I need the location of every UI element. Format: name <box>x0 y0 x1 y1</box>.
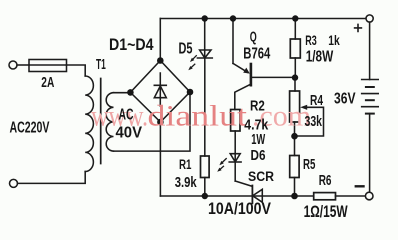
fuse F 2A <box>29 60 67 72</box>
LED D5 emission arrows <box>191 56 197 68</box>
svg-text:1/8W: 1/8W <box>306 48 334 65</box>
svg-text:SCR: SCR <box>248 169 274 184</box>
wire emitter column <box>232 19 234 64</box>
SCR thyristor <box>251 186 253 204</box>
plus sign <box>355 24 362 31</box>
transistor Q emitter with arrow <box>233 63 248 72</box>
wire R4 bottom to node <box>294 122 296 136</box>
node bridge right <box>187 89 194 96</box>
terminal AC top circle <box>9 61 17 69</box>
svg-text:33k: 33k <box>305 114 323 130</box>
svg-text:R3: R3 <box>305 32 317 48</box>
wire secondary bottom to bridge right <box>114 92 191 151</box>
transformer core <box>100 79 102 164</box>
wire fuse to transformer primary <box>67 65 86 76</box>
svg-text:T1: T1 <box>96 56 106 73</box>
resistor R2 <box>231 110 240 132</box>
svg-text:AC220V: AC220V <box>10 120 50 137</box>
potentiometer R4 wiper <box>300 105 307 110</box>
bridge rectifier D1-D4 diamond <box>130 61 190 123</box>
terminal - circle <box>365 192 373 200</box>
resistor R5 <box>294 136 296 155</box>
transistor Q collector <box>235 85 250 110</box>
svg-text:R1: R1 <box>179 157 192 172</box>
LED D6 <box>230 154 240 162</box>
svg-text:B764: B764 <box>243 46 270 63</box>
transformer T1 primary winding <box>85 76 93 172</box>
svg-text:D6: D6 <box>251 148 266 164</box>
node bridge left <box>127 89 134 96</box>
terminal AC bottom circle <box>10 179 18 187</box>
svg-text:Q: Q <box>250 30 257 46</box>
LED D5 <box>204 19 206 59</box>
svg-text:D5: D5 <box>179 41 193 58</box>
svg-text:1k: 1k <box>328 32 340 48</box>
resistor R6 <box>314 193 336 200</box>
node top rail D5 <box>202 15 208 21</box>
node bridge bottom <box>157 119 164 126</box>
terminal + circle <box>366 15 373 22</box>
wire bottom rail right <box>336 195 366 197</box>
LED D6 emission arrows <box>220 159 227 170</box>
wire terminal to fuse <box>17 64 29 66</box>
svg-text:36V: 36V <box>334 90 356 107</box>
svg-text:R4: R4 <box>310 92 323 109</box>
resistor R3 <box>294 19 296 40</box>
svg-text:AC: AC <box>119 107 134 124</box>
svg-text:R5: R5 <box>303 156 315 173</box>
minus sign <box>356 185 364 187</box>
svg-text:10A/100V: 10A/100V <box>208 200 271 218</box>
svg-text:D1~D4: D1~D4 <box>109 36 154 54</box>
svg-text:dianlut: dianlut <box>148 99 248 132</box>
transformer secondary winding <box>106 93 113 151</box>
wire bridge top drop <box>159 19 161 61</box>
wire R2 to D6 <box>234 131 236 162</box>
svg-text:R2: R2 <box>250 98 265 115</box>
potentiometer R4 <box>290 91 300 122</box>
node R4 wiper R5 <box>291 133 298 140</box>
svg-text:R6: R6 <box>319 173 332 189</box>
node top rail R3 <box>292 15 298 21</box>
transistor Q base bar <box>250 64 253 85</box>
wire bottom rail left <box>160 195 313 197</box>
wire secondary top to bridge left <box>114 92 131 94</box>
wire node base/R3/R4 <box>294 78 296 91</box>
wire top rail <box>160 18 365 20</box>
bridge inner diode <box>154 73 166 106</box>
node bottom rail R1 <box>202 193 208 199</box>
svg-text:1Ω/15W: 1Ω/15W <box>304 203 348 221</box>
wire bridge bottom drop <box>159 122 161 196</box>
svg-text:2A: 2A <box>41 74 54 91</box>
wire base to R3/R4 node <box>252 76 295 78</box>
wire primary bottom to AC terminal <box>18 172 86 184</box>
node bottom rail R5 R6 <box>291 193 298 200</box>
node bridge top <box>157 57 164 64</box>
resistor R1 <box>201 156 210 178</box>
svg-text:3.9k: 3.9k <box>175 174 197 191</box>
svg-text:1W: 1W <box>251 131 266 148</box>
node base R3 R4 <box>292 74 298 80</box>
svg-text:40V: 40V <box>116 125 143 142</box>
node top rail emitter <box>230 15 236 21</box>
wire D6 to SCR gate <box>235 181 252 186</box>
battery 36V <box>369 22 371 79</box>
